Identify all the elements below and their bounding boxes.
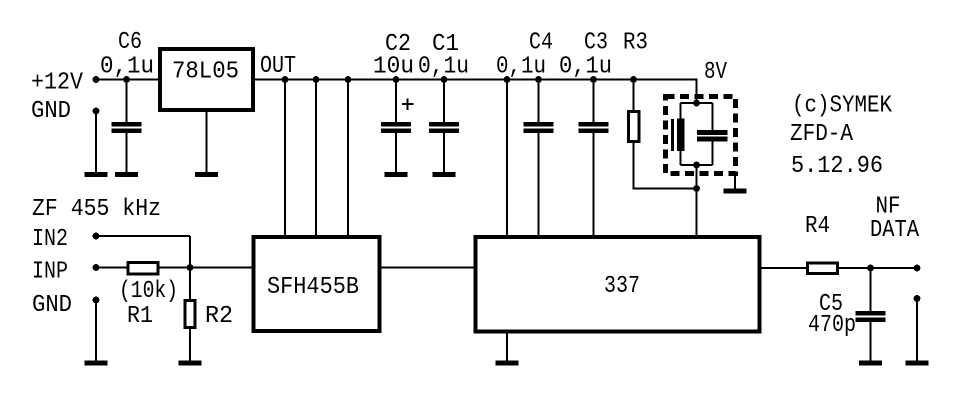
svg-text:OUT: OUT <box>260 53 296 80</box>
svg-text:GND: GND <box>32 292 72 319</box>
svg-text:INP: INP <box>32 259 68 286</box>
svg-text:ZFD-A: ZFD-A <box>790 121 854 148</box>
svg-text:0,1u: 0,1u <box>100 54 154 81</box>
svg-text:(10k): (10k) <box>119 278 178 305</box>
svg-text:ZF 455 kHz: ZF 455 kHz <box>32 196 161 223</box>
svg-text:0,1u: 0,1u <box>418 54 469 81</box>
svg-text:470p: 470p <box>808 312 856 339</box>
svg-text:78L05: 78L05 <box>172 59 239 86</box>
svg-text:0,1u: 0,1u <box>496 54 546 81</box>
svg-text:10u: 10u <box>373 54 414 81</box>
svg-text:C6: C6 <box>118 29 142 56</box>
svg-text:DATA: DATA <box>870 217 920 244</box>
svg-text:337: 337 <box>604 273 640 300</box>
svg-text:R2: R2 <box>205 303 233 330</box>
svg-text:5.12.96: 5.12.96 <box>791 153 883 180</box>
svg-text:SFH455B: SFH455B <box>267 274 359 301</box>
svg-text:C4: C4 <box>529 30 553 57</box>
svg-text:R4: R4 <box>805 213 830 240</box>
svg-text:R3: R3 <box>623 30 648 57</box>
svg-text:R1: R1 <box>127 303 153 330</box>
svg-text:0,1u: 0,1u <box>559 54 612 81</box>
svg-text:IN2: IN2 <box>32 226 68 253</box>
svg-text:GND: GND <box>31 98 71 125</box>
svg-text:C3: C3 <box>584 30 608 57</box>
svg-text:(c)SYMEK: (c)SYMEK <box>792 93 893 120</box>
svg-text:8V: 8V <box>704 59 727 86</box>
svg-text:+12V: +12V <box>31 70 84 97</box>
